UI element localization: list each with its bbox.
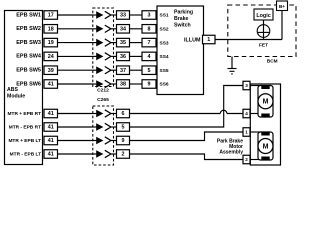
svg-text:Brake: Brake [174,16,189,22]
svg-text:SS2: SS2 [160,27,169,33]
ABS module motor pin 1 [44,109,58,118]
wire C212 pin 36 to switch pin 4 [130,55,143,57]
switch pin 4 [142,52,156,61]
svg-text:ILLUM: ILLUM [184,37,201,43]
svg-text:36: 36 [120,54,126,60]
assembly pin 1 [243,128,250,137]
wire EPB SW5 to C212 [58,69,93,71]
wire EPB SW3 to C212 [58,42,93,44]
wire C265 pin 2 to motor pin 2 [130,154,244,160]
C212 terminal 33 arrow [93,14,97,16]
assembly pin 3 [243,81,250,90]
ABS module pin 18 [44,25,58,34]
wire MTR + EPB LT to C265 [58,140,93,142]
svg-text:SS4: SS4 [160,54,169,60]
switch pin 8 [142,25,156,34]
ABS module motor pin 2 [44,123,58,132]
C212 terminal 37 arrow [93,69,97,71]
svg-text:SS5: SS5 [160,68,169,74]
svg-text:9: 9 [148,82,151,88]
svg-text:Parking: Parking [174,10,193,16]
svg-text:B+: B+ [279,4,285,9]
svg-text:BCM: BCM [267,59,278,64]
svg-text:MTR - EPB RT: MTR - EPB RT [9,124,41,130]
C212 pin 37 [117,66,130,75]
wire EPB SW4 to C212 [58,55,93,57]
ABS module motor pin 4 [44,150,58,159]
C265 pin 6 [117,109,130,118]
ABS module pin 17 [44,11,58,20]
parking brake switch S1 [157,6,204,95]
svg-text:MTR + EPB RT: MTR + EPB RT [8,111,42,117]
svg-text:M: M [263,143,269,150]
wire C212 pin 35 to switch pin 7 [130,42,143,44]
wire EPB SW2 to C212 [58,28,93,30]
svg-text:4: 4 [245,111,248,116]
svg-text:41: 41 [48,111,54,117]
svg-text:6: 6 [122,111,125,117]
C265 pin 5 [117,123,130,132]
svg-text:Module: Module [7,94,25,100]
svg-text:EPB SW3: EPB SW3 [16,40,41,46]
svg-text:FET: FET [259,43,268,49]
ABS module pin 19 [44,38,58,47]
wire B+ to FET drain [281,11,283,40]
svg-text:C212: C212 [97,88,109,94]
transistor FET Q1 [257,25,270,38]
wire assembly pin 4 to motor M1 [250,113,262,115]
svg-text:39: 39 [48,68,54,74]
svg-text:3: 3 [148,13,151,19]
svg-text:33: 33 [120,13,126,19]
svg-text:37: 37 [120,68,126,74]
motor M2 left circle [258,139,273,154]
svg-text:MTR - EPB LT: MTR - EPB LT [10,151,41,157]
svg-text:1: 1 [207,37,210,43]
switch pin 3 [142,11,156,20]
svg-text:SS1: SS1 [160,13,169,19]
motor M1 right top terminal [261,85,269,89]
ABS module U1 [5,11,43,165]
svg-text:Assembly: Assembly [219,150,243,156]
wire MTR - EPB LT to C265 [58,153,93,155]
svg-text:M: M [263,99,269,106]
svg-text:2: 2 [245,157,248,162]
svg-text:5: 5 [148,68,151,74]
wire MTR - EPB RT to C265 [58,126,93,128]
ABS module pin 24 [44,52,58,61]
svg-text:C265: C265 [97,97,109,103]
svg-text:41: 41 [48,138,54,144]
wire MTR + EPB RT to C265 [58,113,93,115]
svg-text:EPB SW1: EPB SW1 [16,12,41,18]
C212 pin 36 [117,52,130,61]
svg-text:38: 38 [120,82,126,88]
svg-text:Logic: Logic [256,13,270,19]
svg-text:19: 19 [48,40,54,46]
wire C265 pin 5 to motor pin 3 [130,86,244,128]
switch pin 5 [142,66,156,75]
C212 pin 35 [117,38,130,47]
svg-text:3: 3 [245,83,248,88]
park brake motor assembly box [250,84,280,165]
C265 pin 9 [117,136,130,145]
svg-text:2: 2 [122,152,125,158]
C265 terminal 2 arrow [93,153,97,155]
svg-text:41: 41 [48,125,54,131]
ABS module motor pin 3 [44,136,58,145]
svg-text:41: 41 [48,82,54,88]
B+ supply [277,1,288,11]
svg-text:34: 34 [120,26,126,32]
C212 pin 38 [117,80,130,89]
wire EPB SW1 to C212 [58,14,93,16]
svg-text:17: 17 [48,13,54,19]
wire EPB SW6 to C212 [58,83,93,85]
svg-text:18: 18 [48,26,54,32]
assembly pin 2 [243,155,250,164]
switch pin 1 [203,35,216,44]
C212 terminal 36 arrow [93,55,97,57]
svg-text:EPB SW5: EPB SW5 [16,68,41,74]
connector C212 [93,8,114,87]
ABS module pin 39 [44,66,58,75]
wire C212 pin 37 to switch pin 5 [130,69,143,71]
wire C212 pin 34 to switch pin 8 [130,28,143,30]
wire C265 pin 6 to motor pin 4 (with hop) [130,113,221,115]
motor M1 right circle [258,94,273,109]
C265 terminal 5 arrow [93,126,97,128]
motor M1 right capsule [258,86,273,118]
svg-text:4: 4 [148,54,151,60]
motor M2 left capsule [258,132,273,160]
motor M2 left top terminal [261,132,269,136]
connector C265 [93,106,114,165]
svg-text:8: 8 [148,26,151,32]
wire ILLUM to FET [215,39,282,41]
svg-text:MTR + EPB LT: MTR + EPB LT [8,138,41,144]
svg-text:EPB SW6: EPB SW6 [16,81,41,87]
C212 terminal 34 arrow [93,28,97,30]
wire C212 pin 38 to switch pin 9 [130,83,143,85]
motor M1 right bottom terminal [261,114,269,118]
C212 pin 33 [117,11,130,20]
svg-text:41: 41 [48,152,54,158]
svg-text:EPB SW4: EPB SW4 [16,54,42,60]
wire assembly pin 2 to motor M2 [250,159,262,161]
svg-text:24: 24 [48,54,54,60]
wire logic to FET gate [263,20,265,40]
svg-text:5: 5 [122,125,125,131]
C212 terminal 35 arrow [93,42,97,44]
svg-text:ABS: ABS [7,87,18,93]
svg-text:9: 9 [122,138,125,144]
svg-text:SS3: SS3 [160,40,169,46]
svg-text:SS6: SS6 [160,82,169,88]
motor M2 left bottom terminal [261,157,269,161]
logic block [254,9,273,20]
C265 terminal 6 arrow [93,113,97,115]
BCM module dashed box [228,5,296,57]
wire C212 pin 33 to switch pin 3 [130,14,143,16]
wire assembly pin 1 to motor M2 [250,131,262,133]
svg-text:7: 7 [148,40,151,46]
C212 pin 34 [117,25,130,34]
assembly pin 4 [243,109,250,118]
svg-text:Switch: Switch [174,23,191,29]
svg-text:1: 1 [245,130,248,135]
switch pin 9 [142,80,156,89]
C212 terminal 38 arrow [93,83,97,85]
C265 terminal 9 arrow [93,140,97,142]
svg-text:EPB SW2: EPB SW2 [16,26,41,32]
svg-text:35: 35 [120,40,126,46]
wire C265 pin 9 to motor pin 1 [130,132,244,141]
ABS module pin 41 [44,80,58,89]
wire assembly pin 3 to motor M1 [250,85,262,87]
ground G1 [231,57,233,69]
switch pin 7 [142,38,156,47]
C265 pin 2 [117,150,130,159]
